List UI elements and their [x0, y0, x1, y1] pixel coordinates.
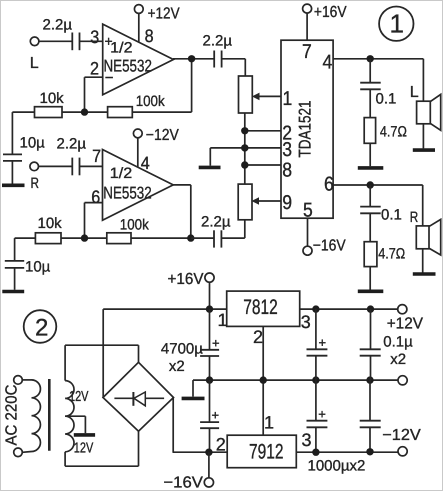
- node output U1b: [187, 234, 194, 241]
- transformer T1 primary: [22, 380, 40, 452]
- wire C7 to R5: [369, 89, 371, 117]
- svg-text:+: +: [319, 335, 327, 350]
- svg-text:8: 8: [282, 159, 292, 181]
- svg-text:−12V: −12V: [382, 427, 421, 444]
- svg-text:7812: 7812: [243, 296, 278, 319]
- node bus pin3: [241, 144, 248, 151]
- svg-text:3: 3: [282, 139, 292, 161]
- svg-text:4700µ: 4700µ: [161, 341, 203, 358]
- svg-text:7: 7: [92, 146, 101, 166]
- wire R5 to ground: [369, 143, 371, 166]
- op-amp U1a pin 2 stub: [85, 59, 103, 113]
- svg-text:NE5532: NE5532: [103, 184, 151, 203]
- svg-text:10µ: 10µ: [25, 259, 51, 276]
- node gnd rail c3: [366, 376, 373, 383]
- IC U2 TDA1521: [281, 40, 334, 221]
- node neg rail 1000u: [312, 449, 319, 456]
- svg-text:1: 1: [264, 413, 274, 433]
- svg-text:2.2µ: 2.2µ: [57, 136, 87, 153]
- marker circle 2: [24, 310, 57, 343]
- wire speaker L to ground: [422, 124, 424, 149]
- AC input terminal top: [14, 376, 23, 385]
- svg-text:x2: x2: [169, 358, 185, 375]
- svg-text:6: 6: [324, 174, 334, 196]
- speaker R: [410, 209, 441, 255]
- svg-text:10µ: 10µ: [20, 135, 46, 152]
- wire secondary bottom to bridge: [65, 431, 138, 466]
- wire R input to C5: [39, 165, 72, 167]
- svg-text:TDA1521: TDA1521: [296, 101, 315, 158]
- ground power section: [182, 397, 205, 401]
- node pin4: [367, 55, 374, 62]
- regulator U4 7912: [216, 430, 312, 468]
- wire R6 to ground: [369, 267, 371, 290]
- svg-text:2.2µ: 2.2µ: [201, 214, 231, 231]
- bus wire pots to ground: [244, 114, 246, 185]
- stub pin 2 TDA: [245, 130, 281, 132]
- svg-text:4: 4: [141, 153, 150, 173]
- wire bridge plus to rail: [102, 309, 104, 397]
- capacitor C7 0.1: [360, 83, 396, 108]
- +12V supply terminal: [134, 5, 179, 23]
- wire center tap: [65, 416, 85, 433]
- svg-text:+: +: [318, 407, 326, 422]
- wire +16V to rail: [209, 282, 211, 309]
- ground under R5: [358, 166, 384, 170]
- svg-text:100k: 100k: [136, 93, 165, 110]
- op-amp U1b 1/2 NE5532: [103, 150, 174, 221]
- capacitor C13 0.1u upper: [360, 309, 413, 380]
- ground under C2: [2, 184, 25, 188]
- node gnd rail c2: [312, 376, 319, 383]
- svg-text:−16V: −16V: [313, 238, 346, 255]
- node output U1a: [188, 55, 195, 62]
- svg-text:1/2: 1/2: [110, 40, 132, 57]
- svg-text:12V: 12V: [69, 389, 89, 405]
- node rail 4700u: [206, 305, 213, 312]
- positive rail wire: [103, 308, 398, 310]
- capacitor C6 2.2u coupling: [201, 214, 231, 248]
- ground rail wire: [193, 380, 398, 397]
- wire pin 7 supply: [306, 13, 308, 40]
- svg-text:2: 2: [90, 59, 99, 79]
- transformer T1 core: [48, 379, 51, 451]
- capacitor C2 10u: [3, 135, 45, 161]
- -16V supply terminal top section: [303, 238, 346, 256]
- marker circle 1: [379, 7, 413, 41]
- svg-text:2: 2: [216, 434, 226, 454]
- wire U1a output: [173, 58, 214, 60]
- +16V supply terminal top: [303, 4, 347, 21]
- node gnd rail c1: [206, 376, 213, 383]
- ground center tap: [74, 433, 95, 437]
- svg-text:R: R: [410, 209, 419, 226]
- svg-text:2.2µ: 2.2µ: [43, 17, 73, 34]
- svg-text:12V: 12V: [74, 441, 94, 457]
- wire speaker R to ground: [422, 249, 424, 273]
- +12V output terminal: [387, 305, 424, 333]
- node neg rail bridge: [205, 449, 212, 456]
- svg-text:8: 8: [145, 26, 154, 46]
- AC input terminal bottom: [14, 448, 23, 457]
- -12V output terminal: [308, 447, 408, 475]
- capacitor C14 0.1u lower: [360, 380, 421, 452]
- resistor R5 4.7ohm: [364, 118, 407, 144]
- svg-text:1/2: 1/2: [110, 165, 132, 182]
- capacitor C9 4700u upper: [161, 309, 220, 380]
- svg-text:7912: 7912: [249, 441, 284, 464]
- node junction A1: [81, 108, 88, 115]
- svg-text:L: L: [410, 84, 419, 101]
- resistor R4 100k: [107, 217, 149, 244]
- svg-text:2.2µ: 2.2µ: [203, 33, 233, 50]
- wire C4 to ground: [14, 268, 16, 290]
- wire R2 to output node: [132, 59, 191, 112]
- svg-text:9: 9: [282, 192, 292, 214]
- op-amp U1b pin 4 supply: [138, 138, 150, 173]
- op-amp U1a 1/2 NE5532: [103, 24, 174, 95]
- svg-text:−: −: [105, 69, 114, 86]
- wire secondary top to bridge: [65, 345, 138, 380]
- resistor R1 10k: [35, 90, 65, 118]
- wire pin 5 supply: [307, 218, 309, 246]
- negative rail wire: [173, 451, 399, 453]
- input terminal R: [30, 162, 39, 192]
- svg-text:4.7Ω: 4.7Ω: [380, 123, 407, 140]
- wire R1 to junction: [62, 111, 108, 113]
- op-amp U1b pin 6 stub: [85, 187, 103, 238]
- -16V supply terminal bottom: [163, 475, 213, 491]
- wire -16V terminal stem: [208, 452, 210, 478]
- transformer T1 secondary: [65, 381, 93, 457]
- RP1 wiper to pin 1: [252, 93, 281, 101]
- svg-text:2: 2: [253, 327, 263, 347]
- resistor R2 100k: [108, 93, 166, 118]
- svg-text:0.1: 0.1: [381, 207, 402, 224]
- wire L input to C1: [39, 40, 72, 42]
- op-amp U1a pin 8 supply: [139, 13, 154, 46]
- svg-text:7: 7: [302, 41, 312, 63]
- svg-text:+16V: +16V: [168, 271, 204, 288]
- svg-text:5: 5: [303, 199, 313, 221]
- wire C3 to pot RP1: [222, 59, 246, 76]
- capacitor C3 2.2u coupling: [203, 33, 233, 68]
- svg-text:3: 3: [90, 27, 99, 47]
- svg-text:0.1µ: 0.1µ: [383, 334, 413, 351]
- wire C2 to ground: [11, 161, 13, 184]
- svg-text:1: 1: [218, 310, 228, 330]
- wire node to C8: [369, 185, 371, 206]
- wire R4 to output node: [131, 185, 191, 238]
- ground under R6: [358, 289, 384, 293]
- ground under speaker R: [413, 272, 436, 276]
- svg-text:L: L: [30, 55, 39, 72]
- node gnd rail reg: [260, 376, 267, 383]
- wire C5 to op-amp pin7: [80, 146, 103, 166]
- wire C6 to pot RP2: [221, 220, 244, 238]
- svg-text:−16V: −16V: [163, 475, 203, 491]
- resistor R6 4.7ohm: [364, 242, 405, 267]
- svg-text:−12V: −12V: [146, 127, 179, 144]
- capacitor C10 4700u lower: [200, 380, 219, 452]
- capacitor C8 0.1: [360, 207, 402, 224]
- svg-text:1: 1: [283, 88, 293, 110]
- svg-text:2: 2: [35, 315, 48, 342]
- svg-text:10k: 10k: [38, 215, 63, 232]
- svg-text:3: 3: [301, 312, 311, 332]
- svg-text:6: 6: [91, 187, 100, 207]
- wire node to C7: [369, 59, 371, 82]
- svg-text:AC 220C: AC 220C: [4, 385, 21, 446]
- node rail 1000u top: [312, 305, 319, 312]
- bridge rectifier D1: [103, 362, 174, 431]
- svg-text:4: 4: [323, 51, 333, 73]
- capacitor C12 1000u lower: [307, 380, 328, 452]
- ground under speaker L: [413, 148, 435, 152]
- input terminal L: [30, 37, 39, 72]
- wire C1 to op-amp pin3: [80, 27, 103, 47]
- node neg rail 0.1u: [366, 448, 373, 455]
- capacitor C4 10u: [5, 259, 51, 276]
- svg-text:+: +: [212, 408, 220, 423]
- -12V supply terminal: [133, 127, 179, 144]
- regulator U3 7812: [218, 291, 311, 347]
- stub pin 8 TDA: [245, 164, 281, 166]
- svg-text:4.7Ω: 4.7Ω: [378, 246, 405, 263]
- resistor R3 10k: [35, 215, 62, 244]
- RP2 wiper to pin 9: [251, 197, 281, 205]
- svg-text:+: +: [212, 336, 220, 351]
- svg-text:x2: x2: [390, 351, 406, 368]
- node rail 0.1u top: [367, 305, 374, 312]
- ground under C4: [2, 290, 24, 294]
- svg-text:10k: 10k: [40, 90, 65, 107]
- node junction A2: [81, 234, 88, 241]
- svg-text:0.1: 0.1: [376, 91, 397, 108]
- wire C8 to R6: [369, 213, 371, 241]
- wire bridge minus to rail: [172, 398, 174, 453]
- ground output terminal: [398, 376, 407, 385]
- svg-text:R: R: [31, 175, 40, 192]
- svg-text:1: 1: [390, 9, 404, 39]
- svg-text:1000µx2: 1000µx2: [308, 458, 366, 475]
- wire R1 left leg: [12, 112, 35, 154]
- svg-text:+12V: +12V: [387, 316, 424, 333]
- wire R3 to junction: [61, 237, 107, 239]
- wire pin 6 to speaker R: [333, 185, 423, 226]
- svg-text:+12V: +12V: [148, 6, 180, 23]
- wire pin 4 to speaker L: [333, 59, 423, 102]
- capacitor C1 2.2u: [43, 17, 80, 51]
- wire ground stub input bus: [209, 148, 211, 166]
- stub pin 3 TDA: [210, 147, 281, 149]
- wire U1b output: [173, 184, 191, 186]
- wire R3 left leg: [15, 238, 36, 260]
- node pin6: [367, 181, 374, 188]
- svg-text:100k: 100k: [120, 217, 149, 234]
- wire output node to C6: [191, 237, 214, 239]
- wire 7812 pin2 down to 7912 pin1: [263, 326, 274, 435]
- svg-text:+16V: +16V: [314, 4, 347, 21]
- node bus pin2: [241, 127, 248, 134]
- capacitor C5 2.2u: [57, 136, 87, 176]
- potentiometer RP1: [239, 76, 253, 113]
- node bus pin8: [241, 161, 248, 168]
- potentiometer RP2: [238, 184, 252, 220]
- ground near TDA inputs: [199, 166, 221, 170]
- capacitor C11 1000u upper: [307, 309, 328, 380]
- +16V supply terminal bottom: [168, 271, 215, 288]
- svg-text:3: 3: [302, 430, 312, 450]
- speaker L: [410, 84, 441, 130]
